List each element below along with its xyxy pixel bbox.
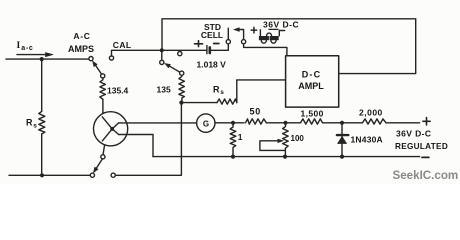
resistor 50 — [246, 119, 267, 124]
battery std cell 1.018V — [195, 41, 203, 47]
potentiometer 100 — [283, 123, 289, 157]
svg-text:AMPS: AMPS — [68, 44, 94, 54]
resistor 135 — [179, 75, 185, 102]
switch contact spare — [178, 52, 182, 56]
label + output — [423, 118, 430, 125]
svg-text:R: R — [26, 118, 33, 128]
switch contact CAL — [160, 60, 164, 64]
switch contact bottom right — [111, 173, 115, 177]
svg-text:2,000: 2,000 — [359, 108, 383, 118]
switch blade A-C AMPS — [96, 66, 103, 76]
chopper reed and contacts — [110, 127, 114, 131]
node bottom left junction — [40, 173, 44, 177]
wire stub above contact — [227, 28, 229, 40]
switch contact bottom left — [90, 173, 94, 177]
wire CAL elbow to std cell — [112, 50, 207, 56]
switch contact chopper reed — [101, 155, 105, 159]
node bus junction 1 — [231, 121, 235, 125]
svg-text:s: s — [33, 123, 37, 130]
wire stub to CAL contact — [161, 50, 163, 60]
wire std cell to chopper drive switch — [211, 44, 229, 51]
label A-C AMPS — [68, 31, 94, 54]
galvanometer G — [197, 114, 215, 132]
resistor 1 (vertical) — [230, 123, 236, 157]
wire input a-c line — [6, 58, 89, 60]
switch pivot CAL — [180, 71, 184, 75]
label 36V D-C (top battery) — [263, 20, 299, 30]
wire left vertical to Rs — [41, 59, 43, 111]
wire left vertical below Rs — [41, 134, 43, 175]
wire vertical to bottom switch — [115, 103, 181, 176]
wire bus 1500 to 2000 — [323, 122, 363, 124]
svg-text:100: 100 — [291, 134, 305, 143]
resistor Rs (series) horizontal — [213, 84, 224, 96]
switch contact CAL left — [109, 56, 113, 60]
wire top feedback — [162, 19, 416, 74]
wire chopper lower contact to bottom bus — [119, 135, 153, 157]
svg-text:CELL: CELL — [201, 30, 223, 40]
svg-text:CAL: CAL — [113, 40, 132, 50]
svg-text:36V D-C: 36V D-C — [263, 20, 299, 30]
wire bus to + output — [386, 122, 420, 124]
label 36V D-C REGULATED — [395, 129, 448, 151]
wire chopper top contact to galvanometer — [119, 122, 197, 124]
node bus junction diode — [340, 121, 344, 125]
op-amp U1 D-C AMPL box — [286, 56, 339, 107]
node bus junction pot — [283, 121, 287, 125]
svg-text:s: s — [220, 89, 224, 96]
battery 36V D-C — [251, 27, 257, 33]
label STD CELL — [201, 22, 223, 40]
label underline mark — [269, 28, 278, 30]
svg-text:50: 50 — [250, 106, 262, 116]
switch blade CAL — [170, 66, 181, 72]
pot wiper arm — [260, 141, 285, 151]
wire Rs to amplifier — [237, 80, 286, 103]
svg-text:R: R — [213, 84, 220, 94]
svg-text:SeekIC.com: SeekIC.com — [393, 169, 459, 182]
node input junction — [40, 57, 44, 61]
node CAL junction — [160, 48, 164, 52]
svg-text:G: G — [203, 119, 209, 128]
input arrow — [17, 54, 46, 56]
node 135 bottom junction — [179, 101, 183, 105]
wire 135.4 to chopper — [102, 99, 104, 112]
chopper (circle) — [94, 112, 128, 146]
svg-text:I: I — [17, 41, 21, 51]
label Ia-c — [17, 41, 34, 52]
resistor 2,000 — [363, 119, 387, 124]
resistor Rs (shunt) — [39, 111, 45, 134]
wire bottom bus — [153, 156, 420, 158]
switch blade arrow (cell selector) — [239, 30, 243, 40]
resistor 135.4 — [100, 78, 106, 99]
switch contact left (std cell) — [226, 40, 230, 44]
svg-text:REGULATED: REGULATED — [395, 142, 448, 151]
switch blade bottom — [96, 159, 102, 168]
svg-text:1,500: 1,500 — [301, 108, 324, 118]
svg-text:36V D-C: 36V D-C — [396, 129, 431, 139]
wire G to bus — [215, 122, 244, 124]
svg-text:135: 135 — [157, 85, 171, 95]
svg-text:1N430A: 1N430A — [351, 135, 383, 145]
svg-text:1: 1 — [238, 132, 243, 142]
wire bus 50 to 1500 — [266, 122, 300, 124]
label CAL — [113, 40, 132, 50]
svg-text:D-C: D-C — [302, 70, 322, 80]
svg-text:AMPL: AMPL — [298, 81, 324, 91]
svg-text:135.4: 135.4 — [107, 86, 129, 96]
switch contact right (36V) — [242, 40, 246, 44]
label - output — [422, 156, 429, 158]
wire chopper reed lead — [103, 145, 105, 155]
svg-text:a-c: a-c — [21, 45, 33, 52]
diode 1N430A — [341, 123, 343, 157]
resistor 1,500 — [301, 119, 323, 124]
node bottom bus junction pot — [283, 155, 287, 159]
svg-text:1.018 V: 1.018 V — [197, 59, 227, 69]
wire contact to amplifier box — [244, 44, 287, 56]
switch pivot circle — [101, 74, 105, 78]
switch contact A-C AMPS — [89, 57, 93, 61]
node bottom bus junction diode — [340, 155, 344, 159]
wire bottom left — [9, 174, 90, 176]
svg-text:A-C: A-C — [73, 31, 90, 41]
node bottom bus junction 1 — [231, 155, 235, 159]
